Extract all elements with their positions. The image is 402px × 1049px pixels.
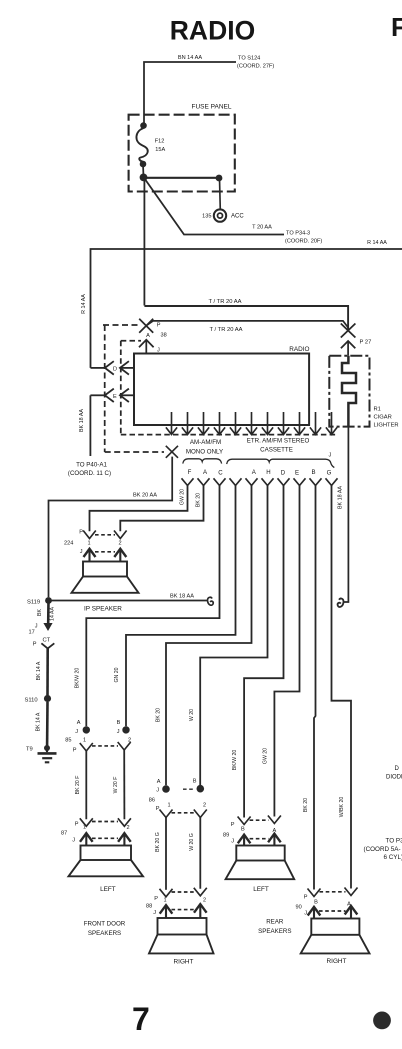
wire T / TR 20 AA (upper) <box>144 306 348 331</box>
svg-text:W 20 G: W 20 G <box>189 833 195 851</box>
svg-text:90: 90 <box>296 904 302 910</box>
svg-text:88: 88 <box>146 903 152 909</box>
svg-text:IP SPEAKER: IP SPEAKER <box>84 606 122 613</box>
svg-text:P: P <box>304 895 308 901</box>
svg-text:TO P40-A1: TO P40-A1 <box>76 462 107 469</box>
wire BK 20 (pin A to IP speaker 2) <box>120 485 203 531</box>
wire W 20 F <box>123 749 125 819</box>
svg-text:E: E <box>295 470 299 477</box>
fuse panel box <box>129 115 235 192</box>
connector P27 <box>341 324 356 356</box>
svg-text:J: J <box>75 729 78 735</box>
svg-text:S119: S119 <box>27 600 40 606</box>
svg-text:CIGAR: CIGAR <box>374 415 392 421</box>
connector E (radio pin E) <box>90 389 134 402</box>
svg-text:BK 20: BK 20 <box>196 493 202 507</box>
svg-text:ETR. AM/FM STEREO: ETR. AM/FM STEREO <box>247 438 310 445</box>
svg-text:RADIO: RADIO <box>289 346 309 353</box>
wire BN 14 AA <box>144 62 236 126</box>
wire T 20 AA <box>145 179 285 235</box>
svg-text:SPEAKERS: SPEAKERS <box>88 930 121 937</box>
wire BK 20 F <box>85 750 87 819</box>
svg-text:6 CYL): 6 CYL) <box>384 854 402 861</box>
svg-text:F: F <box>188 469 192 476</box>
cigar lighter R1 <box>329 356 369 427</box>
node fuse output junction <box>140 174 148 182</box>
connector CT (J17) <box>43 623 52 631</box>
svg-text:224: 224 <box>64 541 73 547</box>
svg-text:G: G <box>327 470 332 477</box>
wire BK 18 AA from cigar lighter, with end hook <box>344 427 349 602</box>
svg-text:(COORD. 27F): (COORD. 27F) <box>237 64 274 70</box>
connector P38 pin A <box>139 319 154 354</box>
harness pin forks F A C - A H D E B G <box>182 478 338 485</box>
svg-text:P: P <box>154 896 158 902</box>
ground T9 <box>44 745 50 751</box>
svg-text:1: 1 <box>83 738 86 744</box>
svg-text:89: 89 <box>223 833 229 839</box>
svg-text:BK 20 F: BK 20 F <box>75 776 81 795</box>
svg-text:A: A <box>146 333 150 339</box>
svg-text:CASSETTE: CASSETTE <box>260 447 293 454</box>
svg-text:BK 20 G: BK 20 G <box>155 832 161 852</box>
svg-text:D: D <box>113 366 117 372</box>
svg-text:P: P <box>73 748 77 754</box>
svg-text:GN 20: GN 20 <box>114 667 120 682</box>
svg-text:GW 20: GW 20 <box>263 748 269 764</box>
svg-text:A: A <box>157 779 161 785</box>
svg-text:BN 14 AA: BN 14 AA <box>178 55 203 61</box>
svg-text:BK 18 AA: BK 18 AA <box>338 486 344 509</box>
svg-text:B: B <box>314 899 318 905</box>
svg-text:BK/W 20: BK/W 20 <box>74 668 80 689</box>
svg-text:BK 18 AA: BK 18 AA <box>170 594 194 600</box>
wire W/BK 20 (pin G to rear right A) <box>332 485 352 889</box>
svg-text:R1: R1 <box>374 407 381 413</box>
wire W 20 G <box>199 817 201 889</box>
svg-text:P: P <box>156 806 160 812</box>
terminal B (front left) <box>122 726 129 733</box>
svg-text:CT: CT <box>43 638 51 644</box>
svg-text:T / TR 20 AA: T / TR 20 AA <box>210 327 243 333</box>
terminal A (front right) <box>162 785 170 793</box>
svg-text:P: P <box>157 323 161 329</box>
svg-text:A: A <box>252 469 257 476</box>
svg-text:T 20 AA: T 20 AA <box>252 224 272 230</box>
wire BK 20 (pin B to rear right B) <box>314 485 316 890</box>
fuse F12 15A <box>140 122 147 129</box>
wire BK 20 AA (case ground to S119) <box>49 457 173 598</box>
svg-text:86: 86 <box>149 798 155 804</box>
svg-text:J: J <box>80 549 83 555</box>
radio box <box>134 354 309 426</box>
svg-text:2: 2 <box>203 803 206 809</box>
svg-text:ACC: ACC <box>231 214 244 220</box>
wire BK 14 AA (S119 down) <box>47 601 50 624</box>
svg-text:FRONT DOOR: FRONT DOOR <box>84 920 126 927</box>
svg-text:C: C <box>218 470 223 477</box>
svg-text:J: J <box>153 910 156 916</box>
svg-text:H: H <box>266 469 270 476</box>
svg-text:BK: BK <box>37 609 43 616</box>
svg-text:J: J <box>231 839 234 845</box>
wire BK/W 20 (pin C to front left door A) <box>86 485 219 727</box>
wire fuse to T/TR (vertical) <box>143 177 145 305</box>
svg-text:P: P <box>79 530 83 536</box>
wire BK 20 (to front right door A) <box>166 485 252 786</box>
wire W 20 (to front right door B) <box>200 485 267 785</box>
brace mono group <box>183 459 222 464</box>
node S110 <box>44 695 51 702</box>
svg-text:87: 87 <box>61 831 67 837</box>
svg-text:GW 20: GW 20 <box>180 489 186 505</box>
connector D (radio pin D) <box>91 361 135 374</box>
svg-text:38: 38 <box>161 333 167 339</box>
svg-text:TO P34-3: TO P34-3 <box>286 231 310 237</box>
svg-text:BK 20: BK 20 <box>155 708 161 722</box>
rear left speaker <box>236 846 284 861</box>
connector P224 (IP speaker) <box>83 531 126 539</box>
svg-text:B: B <box>117 720 121 726</box>
svg-text:14 AA: 14 AA <box>50 607 56 621</box>
svg-text:BK 14 A: BK 14 A <box>36 712 42 731</box>
svg-text:T9: T9 <box>26 747 33 753</box>
wire T / TR 20 AA (lower, from P38) <box>146 321 348 328</box>
outer harness dashed box <box>103 325 164 452</box>
radio output arrows (11) <box>166 412 337 435</box>
inner radio-connector dashed box <box>121 341 338 435</box>
svg-text:2: 2 <box>203 897 206 903</box>
svg-text:2: 2 <box>127 825 130 831</box>
svg-text:RIGHT: RIGHT <box>174 959 194 966</box>
svg-text:1: 1 <box>168 803 171 809</box>
svg-text:BK 14 A: BK 14 A <box>36 661 42 680</box>
svg-text:(COORD. 11 C): (COORD. 11 C) <box>68 470 111 477</box>
svg-text:AM-AM/FM: AM-AM/FM <box>190 439 221 446</box>
IP speaker <box>83 562 127 577</box>
svg-text:(COORD 5A-: (COORD 5A- <box>364 846 401 853</box>
svg-text:T / TR 20 AA: T / TR 20 AA <box>209 299 242 305</box>
svg-text:FUSE PANEL: FUSE PANEL <box>192 104 232 111</box>
svg-text:J: J <box>156 788 159 794</box>
wire BK 20 G <box>165 817 167 890</box>
svg-text:1: 1 <box>83 825 86 831</box>
svg-text:BK 20 AA: BK 20 AA <box>133 493 157 499</box>
svg-text:F12: F12 <box>155 139 165 145</box>
connector radio case ground (X arrow) <box>166 446 178 458</box>
svg-text:A: A <box>203 469 208 476</box>
wire BK 14 A (S110 to T9) <box>46 702 49 746</box>
brace cassette group <box>227 459 335 467</box>
svg-text:REAR: REAR <box>266 919 284 926</box>
svg-text:R 14 AA: R 14 AA <box>81 294 87 314</box>
svg-text:P: P <box>231 822 235 828</box>
svg-text:LEFT: LEFT <box>253 886 269 893</box>
svg-text:1: 1 <box>164 897 167 903</box>
wire BK 14 A (CT to S110) <box>46 649 49 696</box>
connector 87 <box>80 818 131 826</box>
svg-text:B: B <box>241 827 245 833</box>
rear right speaker <box>311 919 359 935</box>
svg-text:2: 2 <box>119 541 122 547</box>
wire GN 20 (to front left door B) <box>126 485 236 727</box>
svg-text:D: D <box>395 766 400 772</box>
svg-text:135: 135 <box>202 213 211 219</box>
svg-text:D: D <box>281 470 286 477</box>
svg-text:W 20 F: W 20 F <box>113 777 119 794</box>
front right door speaker <box>158 918 207 935</box>
svg-text:J: J <box>329 453 332 459</box>
svg-text:J: J <box>72 838 75 844</box>
svg-text:BK 18 AA: BK 18 AA <box>79 409 85 432</box>
wire R 14 AA <box>91 249 402 368</box>
svg-text:SPEAKERS: SPEAKERS <box>258 928 291 935</box>
node S119 <box>45 597 52 604</box>
svg-text:J: J <box>304 910 307 916</box>
terminal B (front right) <box>197 785 205 793</box>
wire GW 20 (to rear left A) <box>274 485 299 817</box>
wire BK 18 AA to P40-A1 <box>89 395 91 456</box>
svg-text:F: F <box>391 12 402 42</box>
wire GW 20 (pin F to IP speaker 1) <box>90 485 188 531</box>
wire BK/W 20 (to rear left B) <box>244 485 283 818</box>
svg-text:J: J <box>117 729 120 735</box>
front left door speaker <box>81 846 132 861</box>
svg-text:J: J <box>35 624 38 630</box>
svg-text:R 14 AA: R 14 AA <box>367 240 387 246</box>
svg-text:1: 1 <box>88 541 91 547</box>
svg-text:P: P <box>33 642 37 648</box>
svg-text:RIGHT: RIGHT <box>327 958 347 965</box>
svg-text:(COORD. 20F): (COORD. 20F) <box>285 239 322 245</box>
svg-text:15A: 15A <box>155 147 165 153</box>
svg-text:7: 7 <box>132 1001 150 1037</box>
svg-text:85: 85 <box>65 738 71 744</box>
svg-text:B: B <box>311 469 315 476</box>
svg-text:A: A <box>77 720 81 726</box>
svg-text:RADIO: RADIO <box>170 16 255 46</box>
svg-text:BK 20: BK 20 <box>303 798 309 812</box>
svg-text:W 20: W 20 <box>189 709 195 721</box>
svg-text:MONO ONLY: MONO ONLY <box>186 449 223 456</box>
terminal 135 ACC <box>219 178 222 210</box>
svg-text:TO P3: TO P3 <box>386 838 402 845</box>
svg-text:BK/W 20: BK/W 20 <box>232 750 238 771</box>
svg-text:LEFT: LEFT <box>100 886 116 893</box>
svg-text:17: 17 <box>29 630 35 636</box>
svg-text:W/BK 20: W/BK 20 <box>339 797 345 818</box>
svg-text:DIODE: DIODE <box>386 774 402 780</box>
connector 89 <box>238 816 281 825</box>
svg-text:P 27: P 27 <box>360 340 372 346</box>
connector 90 <box>308 888 358 897</box>
svg-text:E: E <box>113 394 117 400</box>
svg-text:B: B <box>193 779 197 785</box>
connector 88 <box>160 888 207 897</box>
terminal A (front left) <box>83 726 90 733</box>
svg-text:S110: S110 <box>25 698 38 704</box>
wire BK 18 AA (S119 right, with end hook) <box>49 600 208 602</box>
svg-text:LIGHTER: LIGHTER <box>374 423 399 429</box>
index dot <box>373 1012 391 1030</box>
svg-text:TO S124: TO S124 <box>238 56 260 62</box>
svg-text:P: P <box>75 822 79 828</box>
